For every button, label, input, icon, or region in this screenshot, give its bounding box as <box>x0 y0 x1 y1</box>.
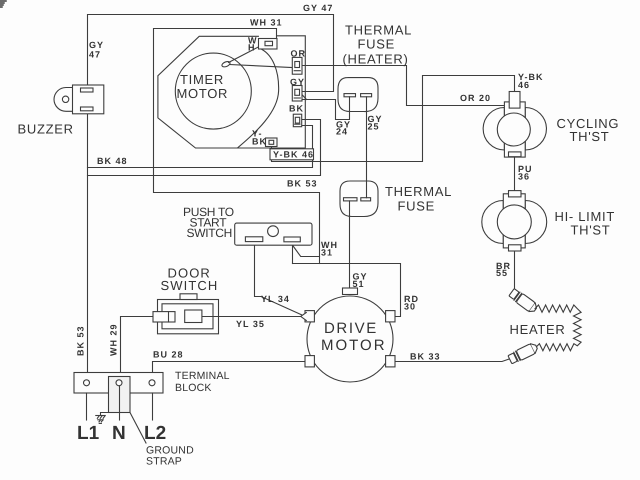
svg-text:L2: L2 <box>144 423 166 444</box>
wire RD 30 push-to-start to drive motor <box>293 264 401 317</box>
svg-text:46: 46 <box>518 80 530 90</box>
wire oval to OR terminal <box>230 65 293 68</box>
svg-text:30: 30 <box>404 302 416 312</box>
timer motor case <box>158 36 305 148</box>
svg-text:N: N <box>112 423 126 444</box>
svg-text:31: 31 <box>321 248 333 258</box>
ground strap <box>109 377 131 413</box>
drive motor top terminal <box>343 288 358 295</box>
terminal W-H of timer <box>259 39 278 50</box>
svg-text:WH 29: WH 29 <box>109 323 119 356</box>
timer motor shaft oval <box>221 60 231 67</box>
thermal fuse (heater) <box>338 78 378 112</box>
drive motor upper-left terminal <box>305 311 314 322</box>
svg-text:BK: BK <box>252 137 267 147</box>
svg-text:BK 53: BK 53 <box>287 179 318 189</box>
heater element zigzag <box>535 305 581 351</box>
push to start switch <box>235 223 312 245</box>
terminal BK of timer <box>293 114 301 127</box>
terminal block <box>74 373 163 394</box>
svg-text:OR 20: OR 20 <box>460 93 491 103</box>
svg-text:25: 25 <box>368 122 380 132</box>
svg-text:STRAP: STRAP <box>146 456 182 468</box>
drive motor upper-right terminal <box>386 311 395 322</box>
drive motor lower-right terminal <box>386 356 395 367</box>
svg-text:SWITCH: SWITCH <box>161 278 219 293</box>
wire PU 36 cycling to hi-limit thermostat <box>514 157 516 191</box>
drive motor lower-left terminal <box>305 356 314 367</box>
wire BK 48 buzzer to timer BK terminal <box>88 126 313 168</box>
svg-text:55: 55 <box>496 268 508 278</box>
wire BK 33 drive motor to heater <box>395 359 511 362</box>
wire N <box>119 386 121 420</box>
wire Y-BK 46 timer terminal to cycling thermostat <box>272 76 515 162</box>
wire GY 47 from buzzer top to timer GY terminal <box>88 15 334 92</box>
wire OR 20 timer OR terminal to cycling thermostat <box>302 66 504 106</box>
drive motor <box>307 296 393 382</box>
wire BU 28 terminal block L2 to drive motor <box>153 362 306 380</box>
svg-text:BK: BK <box>289 104 304 114</box>
terminal block circles <box>84 380 90 386</box>
svg-text:YL 34: YL 34 <box>261 294 290 304</box>
svg-text:OR: OR <box>291 49 307 59</box>
svg-text:BK 53: BK 53 <box>76 325 86 356</box>
wire oval to W-H terminal <box>229 46 260 62</box>
svg-text:THERMAL: THERMAL <box>385 184 452 199</box>
terminal Y-BK of timer <box>266 138 278 147</box>
thermal fuse 2 <box>340 181 378 217</box>
timer motor circle <box>175 53 251 129</box>
svg-text:FUSE: FUSE <box>398 199 435 214</box>
heater bottom connector <box>508 342 539 365</box>
svg-text:GY: GY <box>290 77 305 87</box>
svg-text:MOTOR: MOTOR <box>177 86 229 101</box>
hi-limit thermostat <box>482 191 547 251</box>
svg-text:SWITCH: SWITCH <box>187 226 233 240</box>
svg-text:THERMAL: THERMAL <box>345 23 412 38</box>
svg-text:YL 35: YL 35 <box>236 319 265 329</box>
svg-text:MOTOR: MOTOR <box>321 337 387 354</box>
cycling thermostat <box>483 92 546 158</box>
wire YL 34 push-to-start to drive motor <box>255 242 302 315</box>
wire L1 <box>86 393 88 420</box>
scan corner mark <box>0 1 6 7</box>
ground strap leader line <box>130 413 146 444</box>
svg-text:TERMINAL: TERMINAL <box>175 370 230 382</box>
heater top connector <box>508 288 538 314</box>
wire WH 29 door switch to terminal block N <box>121 317 153 373</box>
svg-text:BK 33: BK 33 <box>410 352 441 362</box>
timer motor pocket curve <box>238 50 279 148</box>
svg-text:HEATER: HEATER <box>510 322 566 337</box>
wire GY 51 thermal fuse 2 to drive motor <box>349 201 351 288</box>
svg-text:BUZZER: BUZZER <box>18 122 74 137</box>
ground <box>96 413 109 424</box>
svg-text:L1: L1 <box>77 423 100 444</box>
svg-text:36: 36 <box>518 172 530 182</box>
svg-text:TH'ST: TH'ST <box>571 223 611 238</box>
terminal OR of timer <box>292 57 302 74</box>
buzzer <box>54 85 104 114</box>
svg-text:DRIVE: DRIVE <box>324 320 378 337</box>
terminal GY of timer <box>292 86 302 102</box>
wire BK 53 left rail to timer BK terminal <box>88 120 321 176</box>
svg-text:BLOCK: BLOCK <box>175 382 212 394</box>
svg-text:GY: GY <box>89 40 104 50</box>
svg-text:BK 48: BK 48 <box>97 156 128 166</box>
svg-text:WH 31: WH 31 <box>250 18 283 28</box>
wire L2 <box>152 393 154 420</box>
wire GY 25 thermal fuse to thermal fuse 2 <box>366 97 368 198</box>
wire WH 31 timer W-H terminal around to push-to-start switch <box>154 29 320 257</box>
svg-text:BU 28: BU 28 <box>153 350 184 360</box>
svg-text:24: 24 <box>336 127 348 137</box>
node Y-BK 46 boxed label <box>270 149 314 160</box>
svg-text:Y-BK 46: Y-BK 46 <box>273 150 314 160</box>
wire YL 35 door switch to drive motor <box>202 316 301 318</box>
svg-text:TIMER: TIMER <box>180 72 224 87</box>
svg-text:GY 47: GY 47 <box>303 3 333 13</box>
svg-text:H: H <box>248 43 256 53</box>
svg-text:(HEATER): (HEATER) <box>343 52 409 67</box>
svg-text:TH'ST: TH'ST <box>570 129 610 144</box>
wire BR 55 hi-limit to heater <box>514 251 516 291</box>
svg-text:FUSE: FUSE <box>358 37 395 52</box>
wire left rail buzzer to terminal block L1 <box>87 111 89 373</box>
door switch <box>153 294 219 334</box>
svg-text:47: 47 <box>89 50 101 60</box>
wire timer GY terminal to thermal fuse GY 24 <box>302 97 350 120</box>
